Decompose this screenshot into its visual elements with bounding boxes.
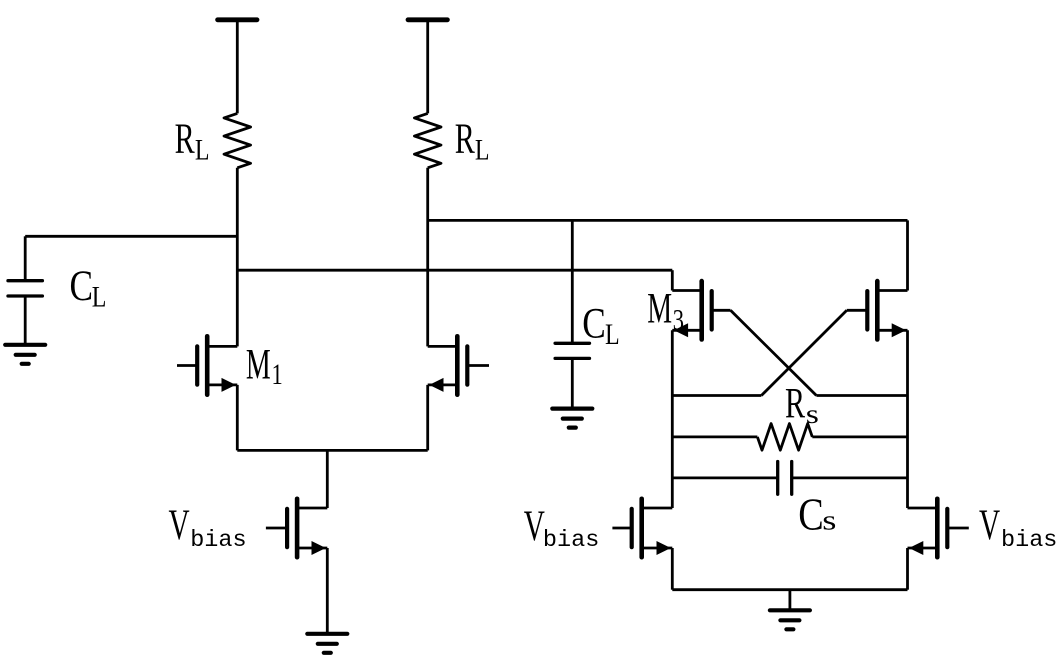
svg-text:V: V xyxy=(169,500,190,548)
svg-text:bias: bias xyxy=(190,527,246,554)
svg-text:L: L xyxy=(605,318,620,351)
svg-text:R: R xyxy=(175,116,195,164)
svg-text:L: L xyxy=(92,280,107,313)
svg-text:V: V xyxy=(979,501,1000,549)
svg-text:bias: bias xyxy=(543,527,599,554)
svg-text:C: C xyxy=(798,489,823,540)
svg-text:R: R xyxy=(785,381,805,429)
svg-text:L: L xyxy=(195,133,210,166)
svg-text:s: s xyxy=(822,505,836,536)
svg-text:L: L xyxy=(475,133,490,166)
svg-text:C: C xyxy=(70,262,94,310)
svg-text:s: s xyxy=(806,399,819,429)
svg-text:3: 3 xyxy=(673,302,684,336)
svg-text:M: M xyxy=(246,340,271,387)
svg-text:M: M xyxy=(647,285,672,332)
svg-text:R: R xyxy=(455,116,475,164)
svg-text:bias: bias xyxy=(1001,527,1057,554)
svg-text:1: 1 xyxy=(272,357,283,391)
svg-text:C: C xyxy=(582,299,606,347)
